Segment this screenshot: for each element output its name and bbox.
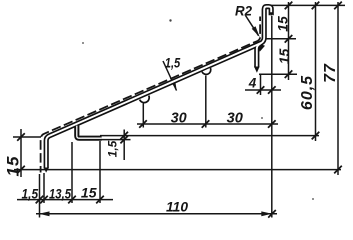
drip leg end tip — [254, 67, 260, 73]
ticks shelf 1.5 dim — [120, 132, 128, 140]
wire: top extension line from hook to 77 dim — [271, 4, 345, 6]
svg-text:15: 15 — [276, 49, 292, 65]
scan specks — [82, 19, 314, 200]
tick V1 at bend y=38.8 — [285, 35, 293, 43]
svg-text:30: 30 — [171, 110, 187, 127]
profile: sheet white core strokes — [46, 7, 271, 169]
svg-text:1,5: 1,5 — [106, 140, 120, 157]
svg-text:15: 15 — [3, 156, 22, 177]
wire: left bend top extension for left 15 dim — [13, 136, 41, 138]
dimension line: 15/15 vertical (right V1) — [288, 2, 290, 80]
arrow 110 right — [261, 211, 272, 216]
hook stub end tip — [269, 12, 274, 16]
tick V1 at drip tip y=74.2 — [285, 70, 293, 78]
dimension line: bottom chain 1.5 / 13.5 / 15 — [17, 199, 113, 201]
left leg end tip — [44, 168, 49, 173]
drip leg at right — [257, 43, 261, 67]
wire: extension line x=44 (leg face) — [43, 173, 45, 203]
dimension line: 60.5 vertical (right V2) — [315, 2, 317, 141]
svg-text:60,5: 60,5 — [299, 75, 316, 110]
wire: extension line x=39.5 (dashed face) down to chain dims — [39, 174, 41, 218]
svg-text:110: 110 — [166, 199, 188, 215]
tick at 110 right end — [268, 210, 276, 218]
arrowheads — [39, 26, 272, 216]
wire: 77 bottom reference line from left leg bottom — [14, 169, 341, 171]
wire: extension line from bump 1 — [142, 103, 144, 128]
tick V2 at 60.5 ref — [312, 132, 320, 140]
ticks left 15 dim — [17, 133, 25, 141]
tick V3 at 77 ref — [334, 166, 342, 174]
leader line R2 — [246, 16, 259, 36]
ticks 30 30 dim — [139, 120, 147, 128]
dimension line: shelf thickness 1.5 vertical — [123, 130, 125, 161]
wire: extension line x=72 from shelf — [71, 142, 73, 203]
wire: shelf lower face extension for 1.5 dim — [101, 139, 131, 141]
svg-text:4: 4 — [248, 76, 257, 91]
bump bead 1 on slope underside — [140, 96, 151, 105]
wire: extension line at slope-to-back bend (y=38.5) — [266, 38, 296, 40]
dimension line: left 15 vertical — [20, 129, 22, 177]
wire: long extension from hook edge down to 110 dim — [271, 16, 273, 218]
ticks 4 dim — [257, 86, 265, 94]
svg-text:77: 77 — [322, 63, 339, 83]
wire: extension line from bump 2 — [205, 76, 207, 128]
leader line thickness 1.5 — [163, 61, 177, 91]
arrow R2 leader — [252, 26, 260, 37]
svg-text:30: 30 — [227, 110, 244, 127]
arrow 110 left — [39, 211, 50, 216]
arrow thickness leader — [171, 81, 177, 91]
dimension line: 4 — [245, 89, 281, 91]
wire: extension line at drip tip (y=74) — [259, 73, 297, 75]
main sheet: hook, back piece, slope, left leg — [46, 7, 271, 169]
ticks bottom chain — [36, 196, 44, 204]
wire: extension line from drip tip down to 4 dim — [260, 74, 262, 95]
dimension line: 110 — [36, 213, 277, 215]
shelf step — [77, 126, 102, 139]
wire: 60.5 bottom reference line from shelf end — [100, 135, 319, 137]
profile: dashed outer contour — [41, 17, 261, 173]
svg-text:13,5: 13,5 — [49, 186, 71, 202]
svg-text:R2: R2 — [235, 3, 252, 19]
wire: extension line x=100 from shelf end — [99, 141, 101, 203]
junction fill at R2 hairpin bend — [259, 45, 265, 52]
dimension line: 30 30 — [137, 123, 278, 125]
profile: sheet black outer strokes — [46, 7, 271, 169]
svg-text:1,5: 1,5 — [165, 56, 181, 71]
dimension line: 77 vertical (right V3) — [337, 2, 339, 175]
bump bead 2 on slope underside — [202, 68, 212, 76]
svg-text:1,5: 1,5 — [22, 186, 39, 202]
svg-text:15: 15 — [81, 185, 97, 201]
svg-text:15: 15 — [274, 16, 290, 32]
